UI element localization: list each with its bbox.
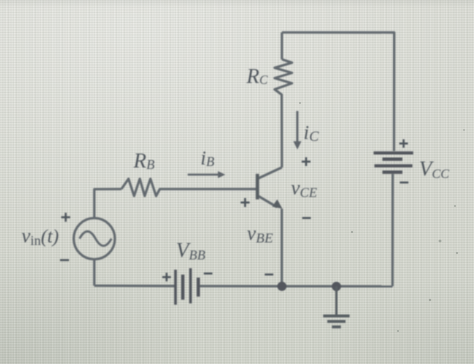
svg-text:iC: iC (304, 122, 320, 145)
svg-text:vin(t): vin(t) (22, 226, 59, 249)
svg-text:iB: iB (201, 148, 215, 170)
svg-text:VCC: VCC (419, 157, 449, 182)
svg-text:RB: RB (133, 149, 155, 173)
svg-text:RC: RC (246, 64, 269, 88)
svg-text:VBB: VBB (176, 238, 205, 263)
svg-text:vCE: vCE (291, 178, 318, 201)
svg-text:vBE: vBE (247, 223, 273, 247)
